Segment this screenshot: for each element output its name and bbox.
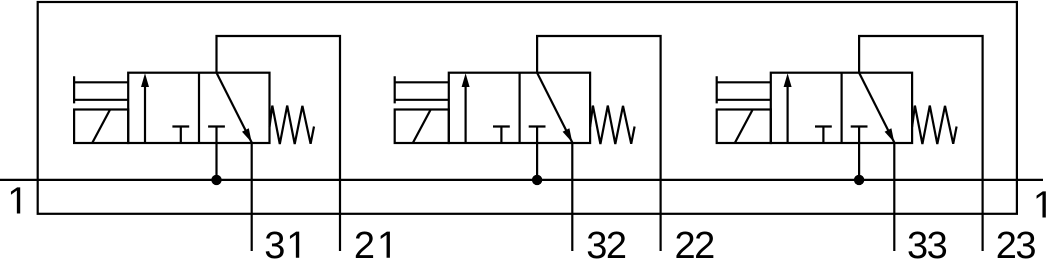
svg-text:3: 3: [1015, 225, 1036, 260]
label 32: [586, 225, 627, 260]
wire port 31: [251, 143, 253, 252]
switching arrow V3 right position: [859, 73, 894, 143]
svg-text:3: 3: [907, 225, 928, 260]
solenoid coil Y3: [717, 110, 771, 144]
junction dot V1 on rail 1: [211, 175, 221, 185]
wire port 32: [571, 143, 573, 252]
flow arrow V2 left position: [462, 73, 470, 143]
blocked port symbol V2 left: [493, 127, 510, 144]
manifold outline: [38, 2, 1017, 214]
solenoid coil Y2: [395, 110, 449, 144]
pilot wire loop V3 to port 23: [859, 36, 983, 251]
svg-text:2: 2: [694, 225, 715, 260]
blocked port symbol V3 right + stem to rail: [851, 127, 868, 180]
svg-text:3: 3: [264, 225, 285, 260]
blocked port symbol V1 left: [172, 127, 189, 144]
wire port 33: [893, 143, 895, 252]
svg-text:2: 2: [996, 225, 1017, 260]
label 1 right (supply port): [1037, 191, 1046, 217]
switching arrow V1 right position: [217, 73, 252, 143]
pressure rail 1: [0, 179, 1043, 181]
pilot wire loop V1 to port 21: [217, 36, 341, 251]
label 1 left (supply port): [11, 187, 20, 213]
svg-text:3: 3: [927, 225, 948, 260]
flow arrow V1 left position: [141, 73, 149, 143]
switching arrow V2 right position: [537, 73, 572, 143]
label 23: [996, 225, 1037, 260]
return spring V3: [912, 106, 957, 144]
solenoid coil Y1: [74, 110, 128, 144]
pilot wire loop V2 to port 22: [537, 36, 661, 251]
return spring V1: [270, 106, 315, 144]
svg-text:3: 3: [586, 225, 607, 260]
pilot channel lines Y1: [74, 76, 128, 103]
svg-text:2: 2: [606, 225, 627, 260]
flow arrow V3 left position: [784, 73, 792, 143]
blocked port symbol V2 right + stem to rail: [529, 127, 546, 180]
return spring V2: [590, 106, 635, 144]
valve body V2: [449, 73, 590, 143]
label 33: [907, 225, 948, 260]
label 22: [675, 225, 716, 260]
svg-text:2: 2: [675, 225, 696, 260]
label 21: [354, 225, 390, 260]
blocked port symbol V1 right + stem to rail: [208, 127, 225, 180]
pilot channel lines Y2: [395, 76, 449, 103]
svg-text:2: 2: [354, 225, 375, 260]
junction dot V3 on rail 1: [854, 175, 864, 185]
valve body V3: [771, 73, 912, 143]
junction dot V2 on rail 1: [532, 175, 542, 185]
blocked port symbol V3 left: [815, 127, 832, 144]
label 31: [264, 225, 299, 260]
valve body V1: [128, 73, 269, 143]
pilot channel lines Y3: [717, 76, 771, 103]
